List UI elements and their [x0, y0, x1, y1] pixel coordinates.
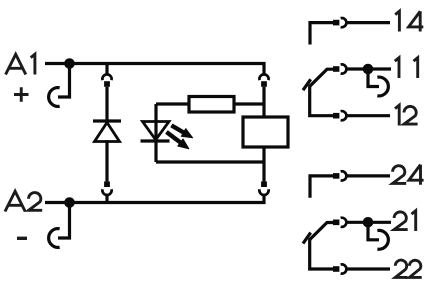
contact arm 2 (movable contact) [310, 223, 333, 240]
LED H1 cathode bar [141, 139, 170, 142]
terminal clamp A2 [49, 229, 60, 248]
connector socket 21 [341, 218, 347, 227]
wire contact 24 branch [310, 176, 333, 198]
node A1 plus polarity label [14, 87, 29, 101]
contact arm pivot tick [303, 79, 311, 90]
wire LED top rail [156, 102, 189, 105]
connector socket 22 [341, 264, 347, 273]
wire A2 bus [45, 195, 264, 202]
wire coil bus upper [262, 87, 265, 117]
connector pin 11 [333, 66, 339, 72]
node A1 label [6, 54, 35, 74]
wire to label 24 [346, 174, 390, 177]
LED H1 triangle [143, 122, 170, 140]
wire A1 clamp drop [58, 64, 70, 98]
relay coil K1 [243, 117, 288, 147]
wire A2 clamp drop [58, 203, 70, 239]
terminal clamp 11 [377, 77, 388, 96]
wire to diode [105, 87, 108, 121]
LED H1 emission arrow upper [171, 124, 193, 138]
terminal clamp 21 [377, 230, 388, 249]
connector pin 14 [333, 20, 339, 26]
wire to label 21 [346, 221, 391, 224]
terminal label 24 [393, 165, 424, 185]
connector pin 21 [333, 220, 339, 226]
connector socket bottom of diode branch [102, 189, 111, 195]
node 21 junction [363, 217, 374, 228]
node A1 junction [64, 58, 75, 69]
terminal clamp A1 [49, 88, 60, 107]
terminal label 14 [395, 11, 423, 31]
wire coil bus lower [262, 147, 265, 181]
wire 11 clamp drop [368, 69, 379, 87]
terminal label 22 [395, 260, 421, 277]
connector socket top of diode branch [102, 74, 111, 80]
node 11 junction [363, 64, 374, 75]
wire to label 12 [346, 114, 390, 117]
LED H1 emission arrow lower [166, 131, 189, 149]
connector socket bottom of coil bus [259, 189, 268, 195]
wire 21 clamp drop [368, 222, 379, 240]
terminal label 12 [395, 105, 418, 125]
diode V1 triangle [95, 123, 120, 142]
wire to label 11 [346, 67, 391, 70]
wire LED branch vertical [154, 104, 157, 162]
resistor R1 body [189, 97, 234, 113]
wire to label 14 [346, 21, 390, 24]
connector pin 22 [333, 266, 339, 272]
node A2 minus polarity label [17, 237, 27, 240]
connector pin top of diode branch [104, 81, 110, 87]
contact arm (movable contact) [310, 69, 333, 86]
connector pin 24 [333, 173, 339, 179]
connector socket 12 [341, 111, 347, 120]
wire resistor to coil bus [234, 102, 264, 105]
wire diode to bottom connector [105, 140, 108, 181]
wire diode branch bottom stub [105, 195, 108, 203]
connector pin top of coil bus [261, 81, 267, 87]
connector socket 24 [341, 171, 347, 180]
wire contact 12 branch [310, 85, 333, 116]
connector pin bottom of coil bus [261, 181, 267, 187]
wire A1 bus [45, 64, 264, 75]
wire LED bottom rail [156, 160, 264, 163]
wire contact 22 branch [310, 238, 333, 269]
connector socket 11 [341, 64, 347, 73]
connector socket 14 [341, 18, 347, 27]
contact arm 2 pivot tick [303, 233, 311, 244]
terminal label 11 [395, 58, 418, 78]
connector pin bottom of diode branch [104, 181, 110, 187]
wire contact 14 branch [310, 23, 333, 45]
wire to label 22 [346, 267, 390, 270]
wire diode branch stub [105, 64, 108, 75]
connector pin 12 [333, 113, 339, 119]
node A2 junction [64, 197, 75, 208]
diode V1 cathode bar [93, 119, 121, 122]
node A2 label [5, 191, 42, 211]
connector socket top of coil bus [259, 74, 268, 80]
terminal label 21 [394, 211, 416, 231]
